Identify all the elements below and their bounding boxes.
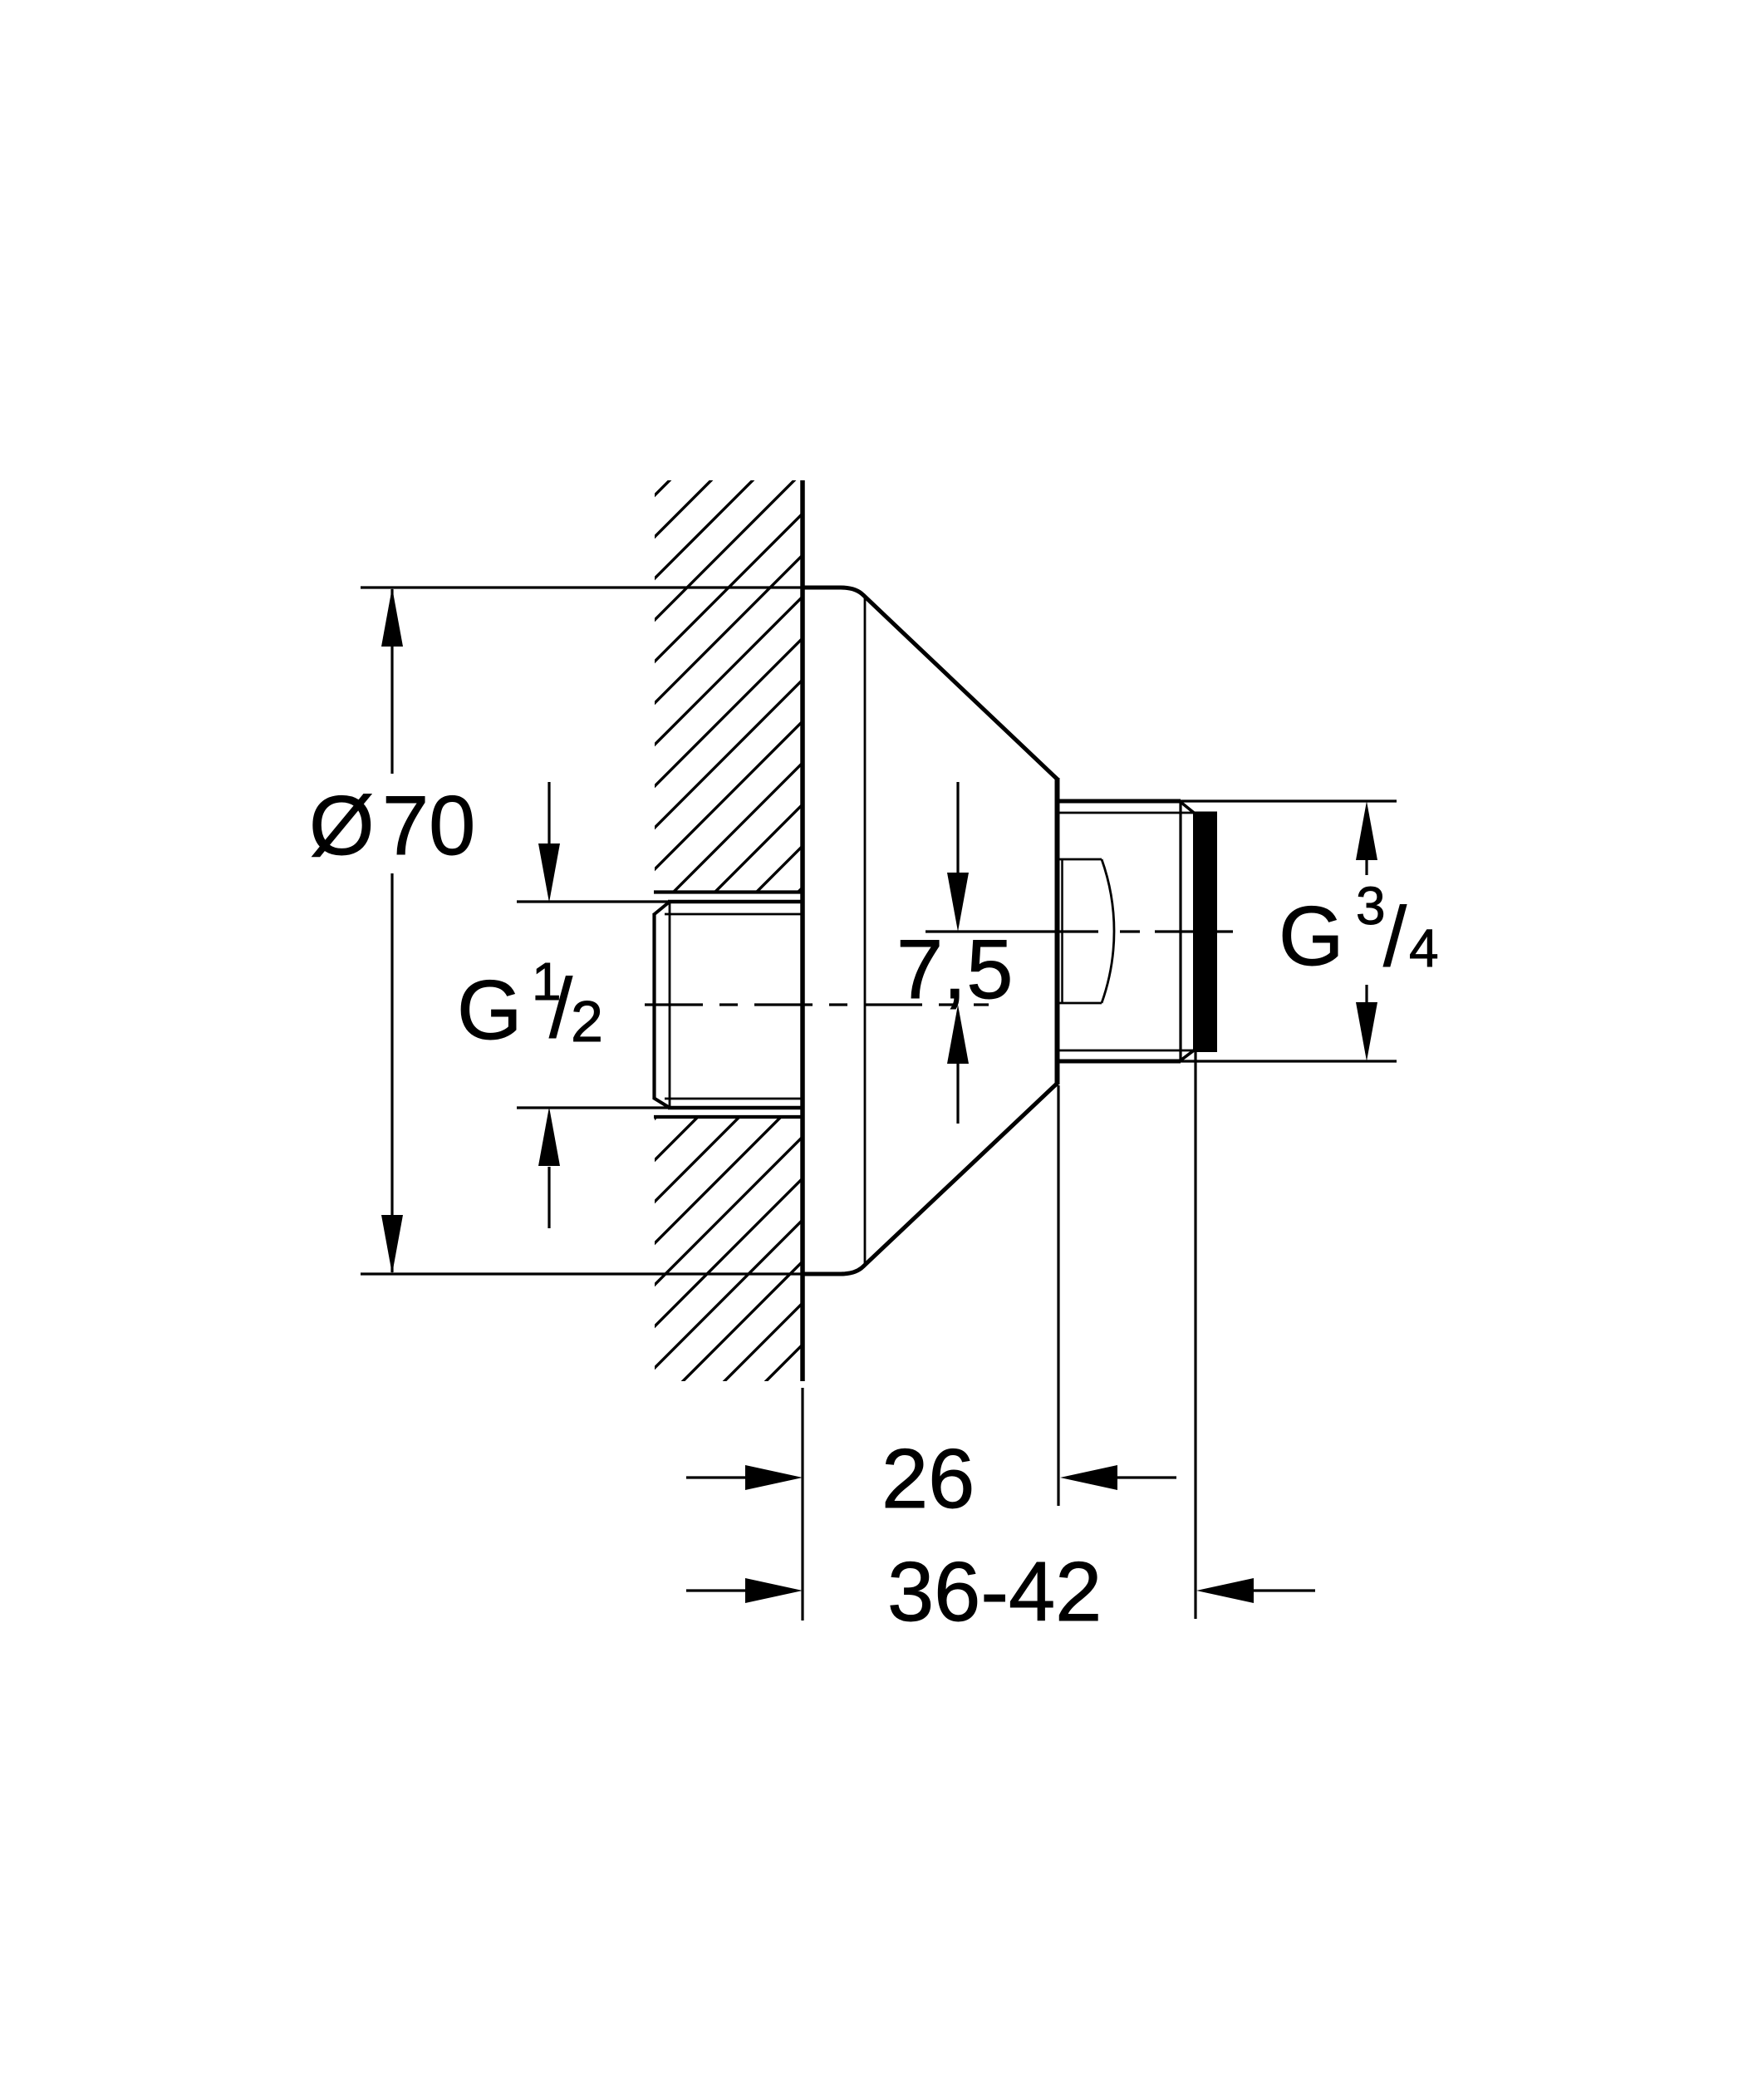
socket bore dome [1102,859,1114,1003]
dim26 left arrow [686,1465,803,1490]
svg-text:70: 70 [382,780,475,873]
wall hole top edge [654,890,801,893]
svg-text:4: 4 [1409,918,1439,978]
nipple outer top line [1056,799,1181,804]
G1/2 OD bottom extension [517,1106,670,1109]
G3/4 upper arrow [1356,801,1377,875]
svg-text:G: G [457,964,523,1057]
label 36-42 [887,1546,1102,1639]
dim26 extension line (cone face) [1057,1085,1059,1506]
svg-text:7,5: 7,5 [896,923,1013,1016]
svg-text:3: 3 [1356,876,1386,936]
dim75 upper arrow [947,782,969,932]
nipple outer bottom line [1056,1060,1181,1064]
svg-text:/: / [549,962,573,1055]
dim70 bottom extension line [361,1272,803,1275]
nipple end face [1179,802,1181,1060]
extension line nipple bottom [1181,1060,1397,1062]
nipple root bottom line [1059,1050,1194,1052]
escutcheon cone face [1056,778,1060,1084]
nipple bottom chamfer [1181,1050,1194,1060]
G1/2 thread top chamfer [654,902,670,915]
G1/2 thread left face [652,913,655,1099]
svg-text:G: G [1279,890,1344,983]
G1/2 thread root top line [665,913,801,916]
wall hole bottom edge [654,1115,801,1119]
nipple axis centerline [1120,930,1233,932]
nipple top chamfer [1181,802,1194,813]
label G 1/2 [457,952,603,1057]
dim3642 left arrow [686,1578,803,1603]
dim26 right arrow [1060,1465,1176,1490]
G1/2 thread chamfer edge [669,902,671,1107]
escutcheon outline [803,588,1057,1274]
socket bore top line [1059,858,1102,861]
G1/2 OD top extension [517,900,670,902]
dim3642 right arrow [1196,1578,1315,1603]
socket bore opening edge [1061,859,1063,1003]
dim70 dimension line [381,588,403,1274]
svg-text:2: 2 [571,989,603,1054]
svg-text:Ø: Ø [309,780,375,873]
G1/2 axis centerline [645,1003,989,1006]
wall section hatching [0,449,1698,1413]
label 26 [881,1433,975,1526]
svg-text:36-42: 36-42 [887,1546,1102,1639]
G1/2 OD upper arrow [538,782,560,902]
label diameter 70 [309,780,475,873]
dim75 lower arrow [947,1005,969,1124]
G1/2 thread outer top line [668,900,801,904]
G1/2 thread bottom chamfer [654,1098,670,1108]
G1/2 thread outer bottom line [668,1106,801,1110]
escutcheon cylinder-cone edge [864,597,867,1265]
wall face extension line [801,1388,803,1620]
gasket (black seal washer) [1193,812,1217,1053]
socket bore bottom line [1059,1002,1102,1005]
wall face line [800,480,805,1381]
svg-text:/: / [1383,891,1407,984]
dim3642 extension line (gasket) [1194,1049,1196,1619]
dim75 upper line (nipple axis) [926,930,1098,932]
dim70 top extension line [361,586,803,588]
label 7,5 [896,923,1013,1016]
svg-text:26: 26 [881,1433,975,1526]
G1/2 OD lower arrow [538,1107,560,1228]
extension line nipple top [1181,799,1397,802]
G3/4 lower arrow [1356,985,1377,1061]
G1/2 thread root bottom line [665,1098,801,1100]
nipple root top line [1059,812,1194,814]
label G 3/4 [1279,876,1439,984]
